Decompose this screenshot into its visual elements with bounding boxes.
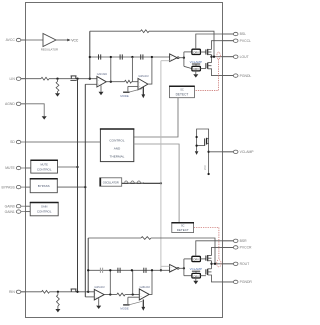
node op-amp U5 output (109, 293, 111, 295)
svg-text:THERMAL: THERMAL (110, 155, 125, 159)
node feedback cap row R (87, 269, 89, 271)
wire AVCC to regulator (21, 39, 43, 41)
wire oscillator output (122, 182, 161, 184)
wire PVCCL (212, 41, 234, 50)
svg-text:CONTROL: CONTROL (109, 139, 124, 143)
svg-text:PGNDR: PGNDR (240, 280, 253, 284)
svg-text:ROUT: ROUT (240, 262, 250, 266)
wire cap row to op-amp U3 inverting (131, 57, 133, 82)
mute control box (31, 160, 58, 173)
svg-text:MUTE: MUTE (41, 163, 49, 167)
svg-text:DETECT: DETECT (177, 228, 189, 232)
oscillator box (100, 178, 122, 186)
wire feedback top L (90, 30, 141, 32)
ground RIN shunt (55, 309, 60, 312)
svg-text:GAIN ADJ: GAIN ADJ (138, 74, 149, 78)
wire RIN input (21, 291, 42, 293)
resistor LIN shunt (57, 79, 59, 82)
pin BSL (223, 33, 234, 35)
wire op-amp U2 noninverting input (85, 83, 97, 85)
wire regulator output (56, 39, 67, 41)
pin AGND (16, 102, 21, 105)
wire BSR (196, 241, 234, 256)
regulator U1 (43, 34, 56, 47)
ground gate driver L (195, 71, 197, 74)
node VCC arrow (67, 39, 70, 42)
node feedback join L (89, 78, 91, 80)
svg-text:AND: AND (114, 147, 121, 151)
VCLAMP rail L (192, 63, 200, 65)
transistor M5 clamp (197, 145, 205, 147)
comparator U4 L (170, 54, 178, 62)
gate driver high side R (192, 256, 201, 261)
switch mute shunt R (127, 297, 129, 304)
resistor LIN input (41, 77, 49, 80)
svg-text:VCLAMP: VCLAMP (240, 150, 255, 154)
svg-text:RIN: RIN (9, 290, 15, 294)
transistor Q2 mute switch R (70, 289, 72, 292)
ground LIN shunt (55, 93, 60, 96)
pin PGNDL (223, 75, 234, 77)
svg-text:VCC: VCC (71, 38, 79, 42)
svg-text:BSR: BSR (240, 239, 248, 243)
svg-text:GAIN ADJ: GAIN ADJ (94, 285, 105, 289)
svg-text:AVCC: AVCC (6, 38, 16, 42)
node mute line tap L (76, 78, 78, 80)
svg-text:GAIN1: GAIN1 (5, 210, 15, 214)
wire op-amp U6 noninverting input (128, 296, 139, 298)
resistor feedback L (141, 30, 149, 33)
node bias bus (84, 186, 86, 188)
svg-text:MODE: MODE (120, 307, 129, 311)
node cap row R c (151, 269, 153, 271)
gate driver low side L (192, 66, 201, 71)
ground gate driver R (195, 278, 197, 281)
node feedback cap row L (89, 56, 91, 58)
wire PGNDR (208, 275, 234, 282)
wire GAIN1 to box (25, 211, 30, 213)
node LIN junction (56, 78, 58, 80)
svg-text:REGULATOR: REGULATOR (41, 48, 58, 52)
resistor interstage R (117, 293, 125, 296)
wire mute bus vertical (77, 79, 79, 292)
svg-text:BSL: BSL (240, 32, 247, 36)
op-amp U3 second stage L (138, 78, 148, 89)
node gate drive split L (183, 57, 185, 59)
svg-text:MODE: MODE (120, 94, 129, 98)
svg-text:BYPASS: BYPASS (38, 184, 50, 188)
node ROUT (210, 263, 212, 265)
svg-text:DRV: DRV (193, 274, 199, 278)
wire bypass output (57, 186, 85, 188)
svg-text:LOUT: LOUT (240, 55, 249, 59)
node cap row R b (131, 269, 133, 271)
node RIN junction (57, 291, 59, 293)
pin VCLAMP (223, 151, 234, 153)
svg-text:CONTROL: CONTROL (37, 210, 52, 214)
pin LOUT (223, 56, 234, 58)
capacitor C2 L (119, 54, 121, 59)
pin SD (16, 140, 21, 143)
capacitor C3 L (140, 54, 142, 59)
wire PVCCR (212, 247, 234, 255)
control logic box (100, 129, 133, 162)
pin ROUT (223, 263, 234, 265)
wire ramp to comparator L (161, 60, 170, 62)
switch mute shunt L (127, 86, 129, 91)
transistor M2 low side L (200, 68, 206, 70)
node cap row L c (151, 56, 153, 58)
wire node to cap row R (109, 270, 111, 294)
resistor feedback R (141, 237, 151, 240)
svg-text:VCC: VCC (204, 165, 207, 170)
op-amp U5 input stage R (94, 289, 104, 300)
gain control box (30, 203, 58, 216)
op-amp U2 input stage L (97, 77, 106, 88)
wire cap row L (90, 56, 170, 58)
wire op-amp U3 output to cap row (148, 57, 152, 84)
node cap row R a (109, 269, 111, 271)
IC boundary (26, 3, 223, 318)
transistor M3 high side R (200, 258, 206, 260)
wire bias bus vertical (84, 84, 86, 297)
gate driver high side L (192, 49, 201, 54)
svg-text:MUTE: MUTE (5, 166, 15, 170)
bypass box (30, 179, 57, 193)
pin BSR (223, 240, 234, 242)
wire VCLAMP out (207, 151, 209, 153)
svg-text:BYPASS: BYPASS (1, 185, 15, 189)
svg-text:OSCILLATOR: OSCILLATOR (103, 180, 119, 184)
wire node to cap row L (110, 57, 112, 82)
transistor M1 high side L (200, 51, 206, 53)
SC detect L box (170, 86, 195, 97)
pin LIN (16, 77, 21, 80)
wire feedback vertical L (89, 31, 91, 78)
svg-text:PVCCR: PVCCR (240, 246, 252, 250)
wire cap row R (88, 269, 169, 271)
node interstage R (132, 293, 134, 295)
resistor RIN input (42, 290, 50, 293)
node op-amp U2 output (110, 81, 112, 83)
wire feedback top R (88, 237, 141, 239)
wire op-amp U6 output to cap row (149, 270, 152, 294)
wire ramp vertical (160, 61, 162, 271)
wire SD to control (25, 141, 100, 143)
comparator U7 R (170, 265, 178, 273)
pin GAIN0 (16, 205, 21, 208)
svg-text:GAIN ADJ: GAIN ADJ (140, 285, 151, 289)
wire output node L (211, 55, 213, 63)
svg-text:GAIN: GAIN (41, 205, 47, 209)
pin MUTE (16, 166, 21, 169)
wire output node R (211, 261, 213, 269)
wire op-amp U3 noninverting input (128, 85, 138, 87)
pin PVCCR (223, 246, 234, 248)
node feedback tap L (213, 56, 215, 58)
pin RIN (16, 290, 21, 293)
node gate drive split R (183, 267, 185, 269)
short-circuit sense R (217, 260, 221, 267)
wire GAIN0 to box (25, 205, 30, 207)
wire feedback vertical R (87, 238, 89, 292)
wire MUTE pin to box (25, 167, 31, 169)
ramp waveform (125, 181, 144, 183)
wire control to SC detect R (134, 144, 179, 223)
wire cap row to op-amp U6 inverting (132, 270, 134, 294)
svg-text:DRV: DRV (193, 67, 199, 71)
svg-text:CONTROL: CONTROL (37, 168, 52, 172)
wire mute control output (58, 166, 78, 168)
svg-text:SD: SD (10, 140, 15, 144)
op-amp U6 second stage R (139, 289, 149, 300)
svg-text:VCLAMP: VCLAMP (190, 60, 202, 64)
svg-text:DRV: DRV (193, 50, 199, 54)
svg-text:PGNDL: PGNDL (240, 74, 252, 78)
capacitor C1 L (98, 54, 100, 59)
node cap row L b (131, 56, 133, 58)
wire ramp to comparator R (161, 265, 170, 267)
ground AGND (42, 116, 47, 119)
wire mute arrow L (142, 87, 144, 95)
VCLAMP rail R (192, 270, 200, 272)
wire LIN input (21, 78, 41, 80)
node cap row L a (110, 56, 112, 58)
resistor interstage L (125, 80, 132, 83)
svg-text:LIN: LIN (10, 77, 16, 81)
ground op-amp U5 (98, 298, 100, 305)
node mute line tap R (76, 291, 78, 293)
node ramp bottom (160, 269, 162, 271)
pin PVCCL (223, 40, 234, 42)
transistor M4 low side R (200, 275, 206, 277)
wire BSL (196, 34, 234, 49)
wire SC detect L to control (134, 98, 178, 137)
pin BYPASS (16, 185, 21, 188)
wire PGNDL (208, 69, 234, 76)
short-circuit sense L (217, 52, 220, 59)
gate driver low side R (192, 273, 201, 278)
node mute bus (76, 166, 78, 168)
node feedback join R (87, 291, 89, 293)
node feedback tap R (214, 263, 216, 265)
node LOUT (210, 56, 212, 58)
pin PGNDR (223, 281, 234, 283)
wire op-amp U5 output (104, 294, 117, 296)
svg-text:DRV: DRV (193, 258, 199, 262)
svg-text:VCLAMP: VCLAMP (190, 267, 202, 271)
VCLAMP source follower (197, 129, 209, 174)
ground op-amp U2 (100, 85, 102, 92)
svg-text:PVCCL: PVCCL (240, 39, 251, 43)
wire op-amp U2 output (106, 81, 124, 83)
capacitor C4 R (99, 268, 101, 273)
wire comparator output R (179, 267, 184, 269)
svg-text:SC: SC (180, 88, 184, 92)
capacitor C6 R (143, 268, 145, 273)
svg-text:DETECT: DETECT (176, 92, 189, 96)
svg-text:GAIN ADJ: GAIN ADJ (97, 72, 108, 76)
wire comparator output L (179, 57, 184, 59)
svg-text:GAIN0: GAIN0 (5, 204, 15, 208)
pin AVCC (16, 38, 21, 41)
wire AGND (21, 104, 44, 116)
pin GAIN1 (16, 210, 21, 213)
wire mute arrow R (142, 300, 144, 308)
wire BYPASS pin to box (25, 186, 30, 188)
svg-text:AGND: AGND (5, 102, 15, 106)
SC detect R box (172, 223, 194, 233)
node ramp (160, 182, 162, 184)
transistor Q1 mute switch L (70, 76, 72, 79)
wire op-amp U5 noninverting input (85, 296, 94, 298)
resistor RIN shunt (57, 292, 59, 295)
capacitor C5 R (117, 268, 119, 273)
diode clamp arrow (195, 151, 199, 155)
